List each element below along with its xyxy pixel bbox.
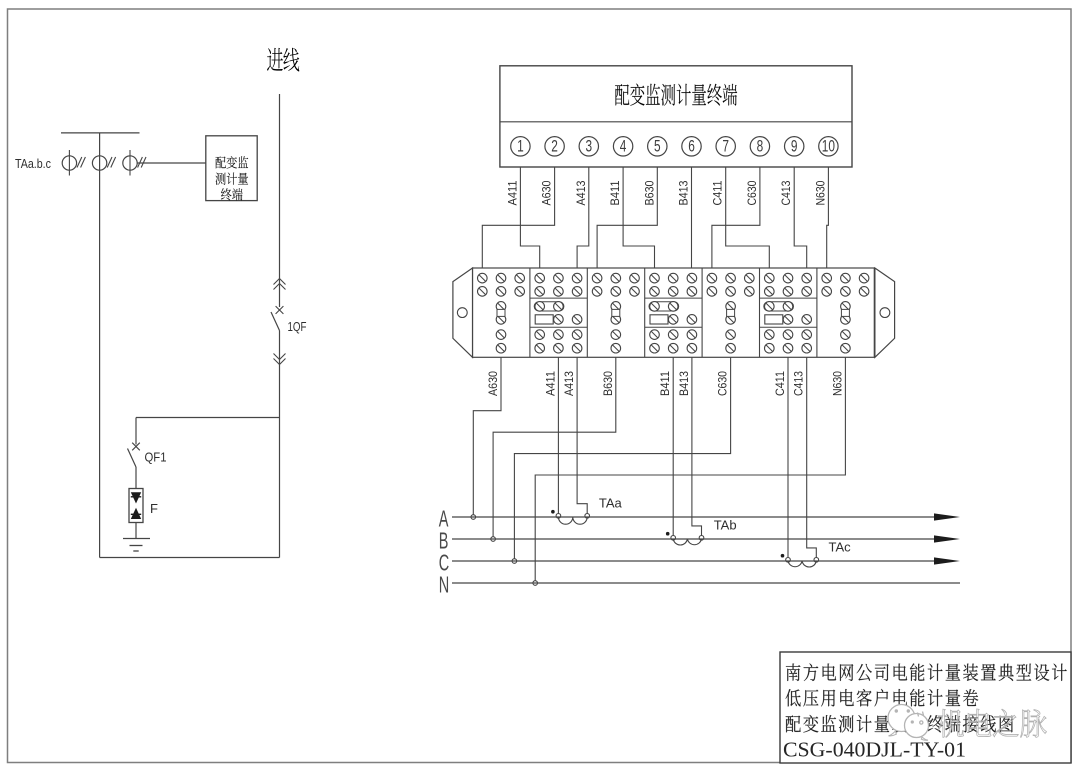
terminal pin 9 — [785, 137, 804, 156]
svg-text:TAb: TAb — [714, 518, 737, 533]
CT TAa — [551, 496, 622, 525]
drawout chevron upper (plug-in contact) — [274, 279, 286, 290]
terminal strip section 5 — [707, 273, 754, 353]
surge arrester F — [129, 489, 158, 523]
drawing number CSG-040DJL-TY-01 — [783, 738, 966, 762]
svg-text:A413: A413 — [564, 371, 576, 396]
svg-text:CSG-040DJL-TY-01: CSG-040DJL-TY-01 — [783, 738, 966, 762]
svg-text:A630: A630 — [488, 371, 500, 396]
wire B411: terminal 4 to strip — [610, 167, 654, 268]
metering terminal unit 配变监测计量终端 — [500, 66, 852, 167]
svg-text:6: 6 — [688, 138, 695, 156]
wire B413: terminal 6 to strip — [679, 167, 692, 268]
svg-text:C411: C411 — [775, 371, 787, 396]
breaker 1QF — [271, 306, 307, 334]
svg-text:A413: A413 — [576, 181, 588, 206]
wire: bottom return — [100, 557, 280, 559]
wire B411: strip to bus B — [660, 357, 675, 540]
wire A630: strip to bus A — [471, 357, 501, 519]
wire: arrester to ground — [135, 523, 137, 539]
svg-text:F: F — [150, 501, 158, 516]
wire A413: terminal 3 to strip — [576, 167, 589, 268]
ground — [123, 539, 150, 552]
svg-text:A411: A411 — [507, 181, 519, 206]
terminal pin 2 — [545, 137, 564, 156]
terminal pin 5 — [648, 137, 667, 156]
CT TAb — [666, 518, 737, 546]
wire B630: strip to bus B — [491, 357, 616, 541]
svg-text:TAa.b.c: TAa.b.c — [15, 157, 51, 171]
svg-text:TAc: TAc — [829, 540, 852, 555]
watermark logo (WeChat) — [888, 705, 929, 741]
svg-text:2: 2 — [551, 138, 558, 156]
bus A — [439, 508, 960, 533]
svg-text:7: 7 — [722, 138, 729, 156]
svg-text:A630: A630 — [542, 181, 554, 206]
svg-text:N630: N630 — [815, 181, 827, 206]
CT TAc — [781, 540, 851, 568]
svg-text:1QF: 1QF — [288, 319, 307, 334]
terminal strip section 6 — [760, 273, 817, 353]
svg-text:TAa: TAa — [599, 496, 623, 511]
node: incoming line label 进线 — [267, 48, 299, 72]
svg-text:QF1: QF1 — [145, 450, 167, 465]
svg-text:B630: B630 — [603, 371, 615, 396]
terminal pin 3 — [579, 137, 598, 156]
wire: CT to terminal box — [137, 162, 206, 164]
wire B413: strip to bus B — [679, 357, 704, 540]
svg-text:C411: C411 — [713, 181, 725, 206]
bus N — [439, 574, 960, 599]
terminal strip section 1 — [478, 273, 525, 353]
wire C411: terminal 7 to strip — [713, 167, 770, 268]
breaker QF1 — [128, 443, 167, 489]
svg-text:9: 9 — [791, 138, 798, 156]
terminal strip (test terminal block) body — [453, 268, 895, 357]
svg-text:C630: C630 — [747, 181, 759, 206]
svg-text:N: N — [439, 574, 449, 599]
svg-text:C413: C413 — [781, 181, 793, 206]
wire C413: terminal 9 to strip — [781, 167, 807, 268]
terminal strip section 2 — [530, 273, 587, 353]
wire A630: terminal 2 to strip — [482, 167, 554, 268]
svg-text:5: 5 — [654, 138, 661, 156]
svg-text:B630: B630 — [644, 181, 656, 206]
terminal strip section 4 — [645, 273, 702, 353]
svg-text:N630: N630 — [832, 371, 844, 396]
svg-text:B411: B411 — [610, 181, 622, 206]
title line 1 南方电网公司电能计量装置典型设计 — [786, 663, 1067, 681]
title block — [780, 652, 1071, 763]
wire C630: strip to bus C — [512, 357, 730, 563]
terminal pin 7 — [716, 137, 735, 156]
svg-text:10: 10 — [822, 138, 835, 156]
svg-text:C413: C413 — [794, 371, 806, 396]
drawout chevron lower — [274, 354, 286, 365]
wire: incoming feeder vertical — [279, 94, 281, 558]
svg-text:B413: B413 — [679, 181, 691, 206]
terminal pin 6 — [682, 137, 701, 156]
title line 3 配变监测计量装置终端接线图 — [786, 715, 1013, 733]
wire N630: terminal 10 to strip — [815, 167, 828, 268]
wire C411: strip to bus C — [775, 357, 790, 562]
terminal pin 4 — [613, 137, 632, 156]
terminal pin 10 — [819, 137, 838, 156]
bus B — [439, 530, 960, 555]
terminal pin 8 — [750, 137, 769, 156]
svg-text:B411: B411 — [660, 371, 672, 396]
terminal pin 1 — [511, 137, 530, 156]
bus C — [439, 552, 960, 577]
svg-text:3: 3 — [585, 138, 592, 156]
svg-text:4: 4 — [620, 138, 627, 156]
wire: branch to QF1 — [136, 418, 280, 445]
svg-text:1: 1 — [517, 138, 524, 156]
wire A413: strip to bus A — [564, 357, 589, 518]
svg-text:8: 8 — [757, 138, 764, 156]
wire C413: strip to bus C — [794, 357, 819, 562]
wire A411: terminal 1 to strip — [507, 167, 539, 268]
svg-text:C630: C630 — [718, 371, 730, 396]
wire C630: terminal 8 to strip — [712, 167, 760, 268]
wire N630: strip to bus N — [533, 357, 846, 585]
watermark text 机电之脉 — [938, 709, 1046, 737]
terminal box 配变监测计量终端 (left small) — [206, 136, 257, 201]
title line 2 低压用电客户电能计量卷 — [786, 689, 979, 707]
CT TAa.b.c (three current transformers) — [15, 133, 146, 176]
wire A411: strip to bus A — [545, 357, 560, 518]
svg-text:B413: B413 — [679, 371, 691, 396]
wire: CT secondary down left side — [99, 133, 101, 558]
terminal strip section 3 — [592, 273, 639, 353]
svg-text:A411: A411 — [545, 371, 557, 396]
terminal strip section 7 — [822, 273, 869, 353]
wire B630: terminal 5 to strip — [597, 167, 657, 268]
